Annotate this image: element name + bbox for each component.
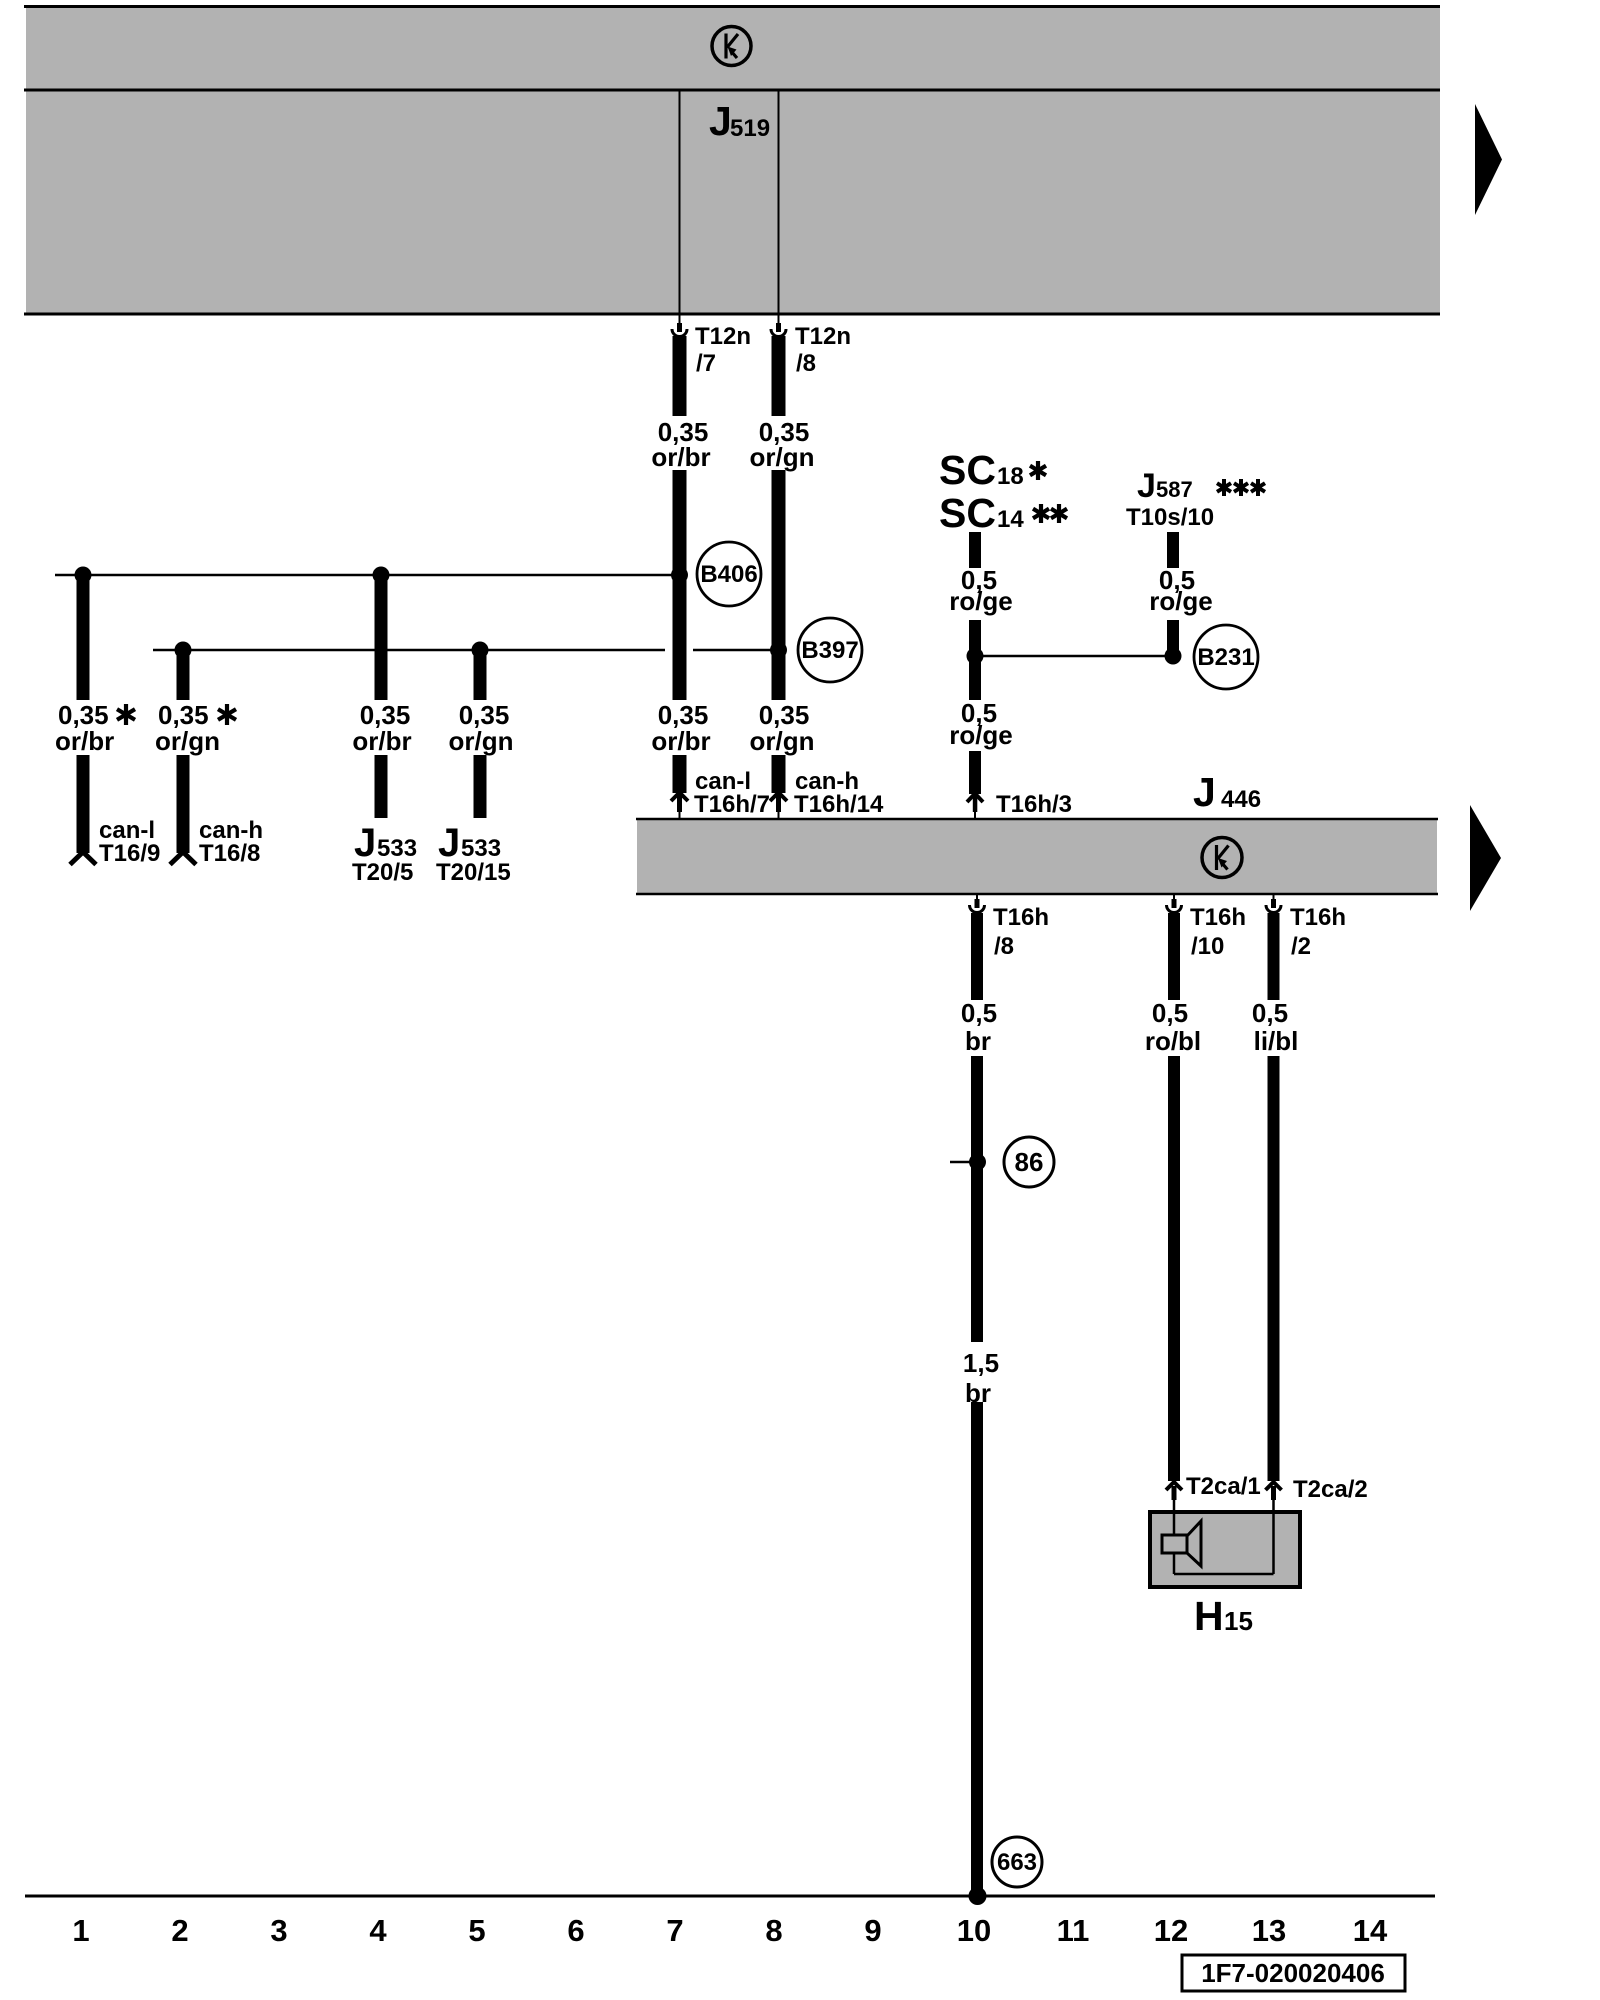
wire SC lower [967, 751, 983, 818]
svg-text:br: br [965, 1026, 991, 1056]
svg-text:T16h/3: T16h/3 [996, 791, 1072, 818]
continuation arrow top [1475, 104, 1502, 215]
svg-text:4: 4 [369, 1913, 387, 1948]
value 1,5 br [963, 1348, 999, 1408]
value 0,5 ro/ge lower [949, 698, 1013, 750]
value wire6 lower [750, 700, 885, 818]
svg-text:/10: /10 [1191, 933, 1224, 960]
stub wire at node 86 [950, 1161, 976, 1164]
svg-text:B231: B231 [1197, 644, 1254, 671]
svg-text:T12n: T12n [795, 323, 851, 350]
svg-text:or/gn: or/gn [750, 726, 815, 756]
svg-text:T16h/7: T16h/7 [694, 791, 770, 818]
continuation arrow J446 [1470, 805, 1501, 911]
svg-text:14: 14 [997, 506, 1024, 533]
speaker symbol [1162, 1521, 1201, 1566]
svg-text:0,5: 0,5 [1252, 998, 1288, 1028]
svg-text:8: 8 [765, 1913, 782, 1948]
wire 2 can-h or/gn [170, 650, 196, 865]
svg-text:li/bl: li/bl [1254, 1026, 1299, 1056]
node B397 [798, 618, 862, 682]
value 0,5 li/bl [1252, 998, 1298, 1056]
junction can-l wire 3 [373, 567, 390, 584]
wire segment pin7 middle [673, 470, 687, 700]
svg-text:T10s/10: T10s/10 [1126, 504, 1214, 531]
svg-text:B406: B406 [700, 561, 757, 588]
svg-text:11: 11 [1057, 1913, 1090, 1948]
K symbol in J519 [712, 27, 751, 66]
svg-text:or/br: or/br [352, 726, 411, 756]
label SC18 SC14 [939, 447, 1067, 536]
svg-text:B397: B397 [801, 637, 858, 664]
wire or/br from T12n/7 upper segment [673, 336, 687, 416]
svg-text:13: 13 [1252, 1913, 1286, 1948]
wire 3 to J533 T20/5 [375, 575, 388, 818]
svg-text:18: 18 [997, 463, 1024, 490]
svg-text:/8: /8 [796, 350, 816, 377]
svg-text:86: 86 [1015, 1147, 1044, 1177]
svg-text:ro/ge: ro/ge [949, 720, 1013, 750]
svg-text:T2ca/1: T2ca/1 [1186, 1473, 1261, 1500]
svg-text:1,5: 1,5 [963, 1348, 999, 1378]
junction can-h pin 8 wire [770, 642, 787, 659]
svg-text:SC: SC [939, 447, 996, 493]
wire segment pin8 middle [772, 470, 786, 700]
ground node dot [969, 1887, 987, 1905]
svg-text:J: J [709, 98, 732, 144]
svg-text:10: 10 [957, 1913, 991, 1948]
svg-text:ro/ge: ro/ge [1149, 586, 1213, 616]
wire or/gn from T12n/8 upper segment [772, 336, 786, 416]
wire 1 can-l or/br [70, 575, 96, 865]
svg-text:or/br: or/br [651, 726, 710, 756]
wire SC middle [969, 620, 981, 700]
svg-text:or/gn: or/gn [155, 726, 220, 756]
node dot SC [967, 648, 984, 665]
svg-text:J: J [1137, 467, 1156, 505]
label J519 [709, 98, 770, 144]
svg-text:15: 15 [1224, 1606, 1253, 1636]
label J587 T10s/10 [1126, 467, 1265, 531]
wire J587 lower [1167, 620, 1179, 660]
svg-text:6: 6 [567, 1913, 584, 1948]
svg-text:or/gn: or/gn [750, 442, 815, 472]
svg-text:T2ca/2: T2ca/2 [1293, 1476, 1368, 1503]
junction can-h wire 2 [175, 642, 192, 659]
svg-text:T12n: T12n [695, 323, 751, 350]
speaker H15 body [1150, 1512, 1300, 1587]
svg-text:J: J [1193, 769, 1216, 815]
K symbol in J446 [1202, 838, 1242, 878]
svg-text:533: 533 [461, 835, 501, 862]
wire br upper [971, 913, 983, 1000]
svg-text:446: 446 [1221, 786, 1261, 813]
wire SC stub [969, 532, 981, 568]
connector T16h/2 [1266, 894, 1346, 960]
svg-text:/8: /8 [994, 933, 1014, 960]
wire br middle [971, 1056, 983, 1342]
wire inside J519 pin 7 [679, 90, 681, 314]
value 0,5 ro/ge J587 [1149, 565, 1213, 616]
can-l bus wire [55, 574, 679, 577]
labels wire 1 [55, 700, 160, 867]
label J446 [1193, 769, 1261, 815]
svg-text:0,5: 0,5 [1152, 998, 1188, 1028]
svg-text:ro/ge: ro/ge [949, 586, 1013, 616]
junction can-h wire 4 [472, 642, 489, 659]
svg-text:12: 12 [1154, 1913, 1188, 1948]
svg-text:9: 9 [864, 1913, 881, 1948]
wire br lower to ground [971, 1402, 983, 1893]
wire inside J519 pin 8 [778, 90, 780, 314]
junction can-l pin 7 wire [671, 567, 688, 584]
svg-text:ro/bl: ro/bl [1145, 1026, 1201, 1056]
wire li/bl [1266, 913, 1282, 1574]
node dot J587 [1165, 648, 1182, 665]
svg-text:3: 3 [270, 1913, 287, 1948]
wire 4 to J533 T20/15 [474, 650, 487, 818]
value 0,35 or/br [651, 417, 710, 472]
connector T12n/7 [672, 314, 751, 377]
value 0,5 ro/ge upper [949, 565, 1013, 616]
svg-text:T16/8: T16/8 [199, 840, 260, 867]
svg-text:0,5: 0,5 [961, 998, 997, 1028]
wire 5 lower or/br [671, 755, 688, 818]
svg-text:T16/9: T16/9 [99, 840, 160, 867]
node 86 [1004, 1137, 1054, 1187]
svg-text:2: 2 [171, 1913, 188, 1948]
value wire5 lower [651, 700, 770, 818]
labels wire 4 [436, 700, 514, 886]
value 0,35 or/gn [750, 417, 815, 472]
svg-text:or/gn: or/gn [449, 726, 514, 756]
svg-text:T16h: T16h [1190, 904, 1246, 931]
svg-text:7: 7 [666, 1913, 683, 1948]
svg-text:H: H [1194, 1593, 1224, 1639]
ground rail [25, 1895, 1435, 1898]
connector T16h/8 [970, 894, 1050, 960]
svg-text:663: 663 [997, 1849, 1037, 1876]
svg-text:1F7-020020406: 1F7-020020406 [1201, 1958, 1385, 1988]
control unit J519 body [24, 5, 1440, 315]
svg-text:or/br: or/br [55, 726, 114, 756]
control unit J446 body [636, 819, 1438, 894]
labels wire 2 [155, 700, 263, 867]
connector T12n/8 [771, 314, 851, 377]
wire 6 lower or/gn [770, 755, 787, 818]
node B406 [697, 542, 761, 606]
svg-text:SC: SC [939, 490, 996, 536]
diagram code box [1182, 1955, 1405, 1991]
svg-text:14: 14 [1353, 1913, 1388, 1948]
label H15 [1194, 1593, 1253, 1639]
svg-text:T16h: T16h [1290, 904, 1346, 931]
node 663 [992, 1837, 1042, 1887]
svg-text:T20/15: T20/15 [436, 859, 511, 886]
svg-text:/7: /7 [696, 350, 716, 377]
svg-text:519: 519 [730, 115, 770, 142]
wire ro/bl [1166, 913, 1182, 1574]
junction can-l wire 1 [75, 567, 92, 584]
labels wire 3 [352, 700, 417, 886]
node B231 [1194, 625, 1258, 689]
value 0,5 br [961, 998, 997, 1056]
svg-text:533: 533 [377, 835, 417, 862]
wire J587 stub [1167, 532, 1179, 568]
svg-text:T20/5: T20/5 [352, 859, 413, 886]
grid numbers [72, 1913, 1388, 1948]
bus wire to B231 [975, 655, 1173, 658]
svg-text:T16h: T16h [993, 904, 1049, 931]
svg-text:T16h/14: T16h/14 [794, 791, 884, 818]
value 0,5 ro/bl [1145, 998, 1201, 1056]
connector T16h/10 [1167, 894, 1247, 960]
svg-text:5: 5 [468, 1913, 485, 1948]
svg-text:/2: /2 [1291, 933, 1311, 960]
node dot 86 [969, 1154, 986, 1171]
svg-text:587: 587 [1156, 477, 1193, 502]
can-h bus wire [153, 649, 665, 652]
svg-text:or/br: or/br [651, 442, 710, 472]
svg-text:1: 1 [72, 1913, 89, 1948]
